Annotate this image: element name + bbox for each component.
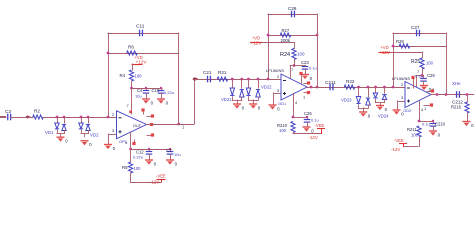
- svg-text:R211: R211: [407, 127, 417, 132]
- capacitor C212: [457, 91, 460, 98]
- node pin7 square stage1: [129, 111, 132, 114]
- ground C7: [166, 159, 174, 161]
- ground pin3 stage3: [393, 109, 401, 111]
- svg-text:+12V: +12V: [136, 60, 148, 65]
- wire feedback right rail stage3: [446, 33, 448, 96]
- svg-text:10u: 10u: [174, 152, 181, 157]
- svg-text:0.22u: 0.22u: [133, 155, 143, 160]
- node C4 tap: [145, 87, 147, 89]
- wire output stage1: [146, 124, 195, 126]
- ground VD2: [81, 140, 89, 142]
- svg-text:C28: C28: [288, 6, 297, 11]
- svg-text:OUT: OUT: [133, 124, 142, 128]
- pin 8 stub stage1: [143, 110, 145, 115]
- svg-text:LF156/NS: LF156/NS: [392, 76, 410, 81]
- wire output stage3: [431, 94, 474, 96]
- wire pin3 to ground stage1: [109, 134, 116, 136]
- svg-text:0.1u: 0.1u: [309, 66, 317, 71]
- svg-text:LF156/NS: LF156/NS: [266, 68, 284, 73]
- node VD21 taps: [231, 78, 234, 81]
- svg-text:OP1: OP1: [119, 139, 128, 144]
- svg-text:R21: R21: [218, 70, 227, 75]
- wire feedback top stage3: [393, 33, 447, 35]
- node vplus stage3: [421, 74, 424, 77]
- resistor R216: [465, 102, 469, 113]
- svg-text:10u: 10u: [135, 94, 142, 99]
- svg-text:100: 100: [135, 74, 143, 79]
- svg-text:C7: C7: [166, 148, 172, 153]
- svg-text:C23: C23: [301, 60, 309, 65]
- node output junction: [466, 93, 469, 96]
- ground C23: [301, 74, 309, 76]
- ground C210: [429, 130, 437, 132]
- node VD24 taps: [374, 86, 377, 89]
- svg-text:+12V: +12V: [251, 41, 263, 46]
- node C7 tap: [169, 148, 171, 150]
- wire output stage2 to stage3: [307, 87, 406, 89]
- ground C12: [145, 159, 153, 161]
- svg-text:-12V: -12V: [309, 135, 318, 140]
- wire R25 to node stage3: [422, 69, 424, 77]
- pin 8 stub stage2: [301, 74, 303, 84]
- power -VEE stage3: [399, 143, 407, 145]
- svg-text:-VEE: -VEE: [156, 174, 166, 179]
- node R27 left: [267, 34, 270, 37]
- wire to VEE stage2: [293, 132, 295, 134]
- wire pin3 to ground stage3: [398, 101, 405, 103]
- diode pair VD23: [358, 87, 360, 98]
- svg-text:-12V: -12V: [391, 147, 400, 152]
- svg-text:VD1: VD1: [45, 130, 54, 135]
- node feedback tap out3: [445, 93, 448, 96]
- wire feedback R28 row stage3: [393, 46, 447, 48]
- svg-text:VD24: VD24: [378, 114, 389, 119]
- node output pin stage1: [150, 123, 153, 126]
- svg-text:R8: R8: [122, 165, 128, 170]
- capacitor C21: [208, 76, 211, 83]
- capacitor C27: [417, 30, 420, 37]
- capacitor C4: [146, 88, 148, 92]
- diode pair VD1: [57, 117, 59, 124]
- svg-text:VD2: VD2: [90, 133, 99, 138]
- resistor R28: [399, 44, 410, 48]
- svg-text:VD22: VD22: [261, 85, 272, 90]
- node R27 right: [316, 34, 319, 37]
- ground VD22: [249, 103, 257, 105]
- capacitor C23: [305, 65, 307, 67]
- pin 1 stub stage1: [134, 140, 136, 144]
- wire to VEE stage1: [130, 173, 132, 183]
- node R6 left: [107, 52, 110, 55]
- wire feedback R27 row stage2: [268, 35, 318, 37]
- wire pin4 stage1: [130, 132, 132, 149]
- svg-text:C4: C4: [137, 88, 143, 93]
- svg-text:R6: R6: [128, 45, 134, 50]
- svg-text:VD21: VD21: [221, 97, 232, 102]
- svg-text:C210: C210: [435, 122, 446, 127]
- ground VD24: [376, 105, 384, 107]
- ground VD21: [233, 103, 241, 105]
- wire pin4 stage3: [419, 100, 421, 121]
- op-amp OD2: [405, 82, 431, 108]
- svg-text:R2: R2: [34, 109, 40, 114]
- svg-text:R27: R27: [282, 28, 290, 33]
- wire vplus rail stage1: [131, 88, 163, 90]
- wire input segment: [0, 116, 6, 118]
- node output stage2: [310, 86, 313, 89]
- ground VD23: [359, 111, 367, 113]
- node vplus stage2: [293, 64, 296, 67]
- node C26 tap: [306, 116, 308, 118]
- pin 5 stubs right stage1: [147, 116, 153, 118]
- node input arrow: [27, 115, 31, 119]
- svg-text:100: 100: [297, 52, 305, 57]
- capacitor C3: [4, 117, 7, 119]
- wire vplus node stage2: [290, 65, 306, 67]
- node feedback tap out2: [316, 86, 319, 89]
- svg-text:R22: R22: [346, 79, 355, 84]
- node C210 tap: [432, 120, 434, 122]
- wire vplus node stage3: [416, 75, 425, 77]
- wire feedback R6 row stage1: [108, 53, 180, 55]
- resistor R4: [129, 70, 133, 81]
- node R28 left: [392, 45, 395, 48]
- wire feedback right rail stage1: [178, 33, 180, 125]
- svg-text:R25: R25: [411, 59, 420, 65]
- node vminus stage2: [292, 116, 295, 119]
- capacitor C28: [292, 11, 295, 18]
- svg-text:R4: R4: [120, 73, 126, 78]
- svg-text:0.22u: 0.22u: [164, 90, 174, 95]
- resistor R24: [292, 49, 296, 60]
- wire R24 to node stage2: [294, 59, 296, 66]
- pin balance stubs stage3: [427, 91, 433, 93]
- wire input stage2: [194, 79, 282, 81]
- node VD1 taps: [56, 116, 59, 119]
- resistor R27: [280, 33, 291, 37]
- node output stage3: [436, 93, 439, 96]
- svg-text:-12V: -12V: [150, 180, 159, 185]
- node VD23 taps: [357, 86, 360, 89]
- capacitor C12: [149, 149, 151, 153]
- wire vminus rail stage1: [130, 149, 171, 151]
- wire pin3 to ground stage2: [274, 93, 281, 95]
- node C10 tap: [160, 87, 162, 89]
- ground C10: [157, 98, 165, 100]
- resistor R21: [217, 77, 228, 81]
- ground pin3 stage1: [104, 144, 112, 146]
- diode pair VD24: [375, 87, 377, 94]
- svg-text:C21: C21: [203, 70, 212, 75]
- ground C26: [303, 126, 311, 128]
- svg-text:100: 100: [279, 128, 287, 133]
- wire vminus branch stage2: [293, 117, 308, 119]
- resistor R2: [33, 115, 44, 119]
- svg-text:C3: C3: [5, 109, 11, 114]
- resistor R6: [127, 51, 138, 55]
- svg-text:100: 100: [426, 61, 434, 66]
- capacitor C26: [307, 117, 309, 121]
- svg-text:C29: C29: [427, 73, 435, 78]
- svg-text:-VEE: -VEE: [394, 138, 404, 143]
- svg-text:0.1u: 0.1u: [311, 118, 319, 123]
- power -VEE stage1: [157, 179, 166, 181]
- diode pair VD21: [232, 79, 234, 89]
- ground R216: [463, 121, 471, 123]
- resistor R8: [129, 162, 133, 173]
- node VD2 taps: [80, 116, 83, 119]
- wire to VEE stage3: [419, 137, 421, 148]
- svg-text:R28: R28: [396, 39, 404, 44]
- node feedback tap A2: [267, 78, 270, 81]
- wire output corner stage3: [467, 94, 469, 103]
- ground C29: [420, 85, 428, 87]
- node C12 tap: [148, 148, 150, 150]
- capacitor C29: [423, 75, 425, 79]
- wire feedback left rail stage2: [268, 14, 270, 80]
- svg-text:R216: R216: [451, 105, 462, 110]
- wire R2 to opamp: [43, 117, 117, 119]
- pin 8 stub stage3: [413, 78, 415, 89]
- resistor R25: [420, 58, 424, 69]
- capacitor C210: [433, 121, 435, 125]
- ground VD1: [57, 136, 65, 138]
- capacitor C11: [140, 30, 143, 37]
- wire vminus left rail stage1: [130, 149, 132, 163]
- op-amp OD1: [281, 74, 307, 100]
- svg-text:100: 100: [134, 166, 142, 171]
- svg-text:0.1u: 0.1u: [422, 122, 430, 127]
- wire feedback left rail stage3: [393, 33, 395, 88]
- ground pin3 stage2: [269, 104, 277, 106]
- wire R4 to vplus rail: [131, 81, 133, 89]
- wire input to R2: [10, 117, 34, 119]
- capacitor C7: [170, 149, 172, 153]
- node vminus stage1: [129, 148, 132, 151]
- node vplus rail stage1: [130, 87, 133, 90]
- svg-text:VD23: VD23: [341, 98, 352, 103]
- wire pin4 stage2: [293, 93, 295, 118]
- resistor R210: [291, 122, 295, 133]
- svg-text:C27: C27: [411, 25, 420, 30]
- capacitor C211: [330, 84, 333, 91]
- node VD22 taps: [247, 78, 250, 81]
- svg-text:100: 100: [411, 133, 419, 138]
- svg-text:XHe: XHe: [452, 81, 461, 86]
- wire vminus branch stage3: [419, 121, 434, 123]
- svg-text:C211: C211: [325, 80, 336, 85]
- node riser arrow: [195, 77, 199, 81]
- svg-text:-VEE: -VEE: [315, 123, 325, 128]
- svg-text:OD2: OD2: [403, 108, 412, 113]
- svg-text:0.1u: 0.1u: [415, 74, 423, 79]
- wire pin7 stage1: [131, 88, 133, 115]
- svg-text:C26: C26: [304, 111, 312, 116]
- op-amp OP1: [117, 111, 147, 139]
- node feedback tap A1: [107, 116, 110, 119]
- pin balance stubs stage2: [304, 83, 309, 85]
- capacitor C10: [161, 88, 163, 92]
- diode pair VD2: [81, 117, 83, 124]
- wire feedback left rail stage1: [108, 33, 110, 118]
- diode pair VD22: [248, 79, 250, 89]
- svg-text:R24: R24: [280, 52, 290, 58]
- wire R216 to ground: [467, 113, 469, 122]
- wire feedback top stage1: [108, 33, 180, 35]
- node feedback tap out1: [177, 123, 180, 126]
- resistor R211: [417, 126, 421, 137]
- svg-text:OD1: OD1: [278, 101, 287, 106]
- wire feedback top stage2: [268, 14, 318, 16]
- svg-text:C11: C11: [136, 24, 145, 30]
- resistor R22: [344, 85, 355, 89]
- wire feedback right rail stage2: [317, 14, 319, 88]
- ground C4: [142, 98, 150, 100]
- wire riser stage1 to stage2: [194, 80, 196, 125]
- node feedback tap A3: [392, 86, 395, 89]
- svg-text:C10: C10: [152, 88, 160, 93]
- power -VEE stage2: [317, 128, 325, 130]
- node vminus stage3: [418, 120, 421, 123]
